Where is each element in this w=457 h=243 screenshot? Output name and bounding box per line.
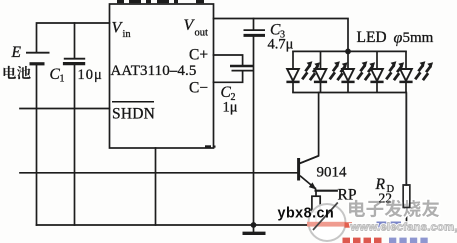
wire: top rail battery+ / C1 / Vin	[37, 23, 110, 52]
capacitor C3 plates	[244, 30, 266, 35]
svg-text:1μ: 1μ	[223, 100, 238, 116]
watermark text dianzifashaoyou	[349, 200, 439, 218]
potentiometer RP box	[312, 196, 320, 212]
svg-text:C−: C−	[189, 80, 208, 97]
svg-text:22: 22	[379, 191, 393, 206]
wire: SHDN stub	[20, 108, 110, 110]
svg-text:9014: 9014	[317, 165, 348, 181]
LED D2	[314, 51, 348, 92]
node: Vout-LED junction dot	[345, 49, 351, 55]
capacitor C1 plates	[63, 59, 85, 64]
wire: LED anode top rail	[293, 50, 406, 52]
capacitor C2 plates	[230, 66, 254, 71]
wire: C+ pin to C2	[214, 55, 243, 66]
wire: emitter to RP top	[314, 188, 317, 196]
wire: battery negative lead down to bottom rail	[36, 65, 38, 225]
svg-text:SHDN: SHDN	[112, 106, 155, 123]
wire: C3 to ground rail	[253, 36, 255, 225]
svg-text:1: 1	[60, 74, 65, 85]
wire: RD to bottom rail	[406, 208, 408, 226]
watermark url www.elecfans.com	[350, 222, 457, 234]
watermark cut-off red/blue characters at bottom	[343, 238, 428, 243]
wire: IC GND pin to bottom rail	[155, 148, 157, 225]
LED D1	[286, 51, 320, 92]
svg-text:AAT3110–4.5: AAT3110–4.5	[111, 63, 197, 79]
wire: C2 to C- pin	[214, 72, 243, 83]
resistor RD box redraw over watermark	[403, 185, 410, 208]
node: ground junction dot	[251, 222, 257, 228]
svg-text:ybx8.cn: ybx8.cn	[278, 206, 335, 222]
wire: Vout to LED array	[214, 19, 349, 52]
svg-text:LED: LED	[357, 29, 387, 46]
battery label dianchi (Chinese)	[4, 66, 16, 79]
wire: base wire to Q1	[20, 172, 298, 174]
wire: Vout to C3 stub	[253, 19, 255, 30]
svg-text:φ: φ	[394, 30, 403, 47]
wire: Q1 collector to LED cathode rail	[300, 93, 319, 164]
battery E plates	[26, 53, 50, 64]
svg-text:10μ: 10μ	[78, 67, 103, 83]
watermark red stripe on rail	[307, 222, 346, 227]
LED D5	[399, 51, 433, 92]
wire: C1 top lead to rail	[74, 23, 76, 58]
watermark stamp diagonal	[313, 203, 338, 231]
watermark stamp circle	[309, 204, 346, 241]
op-amp/regulator U1 AAT3110 box	[110, 4, 214, 148]
wire: bottom ground rail	[37, 224, 408, 226]
wire: RP bottom lead	[315, 212, 317, 225]
svg-text:out: out	[195, 28, 209, 39]
svg-text:5mm: 5mm	[403, 30, 434, 46]
svg-text:www.elecfans.com,: www.elecfans.com,	[350, 222, 457, 234]
wire: LED cathode bottom rail	[293, 92, 406, 94]
scan artifact dashes above IC	[117, 0, 216, 148]
svg-text:in: in	[123, 29, 132, 40]
wire: Q1 emitter junction to RP wiper leader	[316, 190, 337, 192]
svg-text:E: E	[11, 44, 22, 61]
svg-text:C+: C+	[189, 47, 208, 64]
svg-text:4.7μ: 4.7μ	[268, 37, 294, 53]
wire: LED rail to RD	[405, 93, 407, 186]
LED D3	[341, 51, 375, 92]
LED D4	[370, 51, 404, 92]
watermark blue highlight	[377, 222, 402, 231]
ground	[243, 225, 266, 233]
wire: C1 bottom lead down to bottom rail	[74, 65, 76, 225]
resistor RD box	[403, 185, 410, 208]
transistor Q1 9014	[299, 156, 319, 189]
